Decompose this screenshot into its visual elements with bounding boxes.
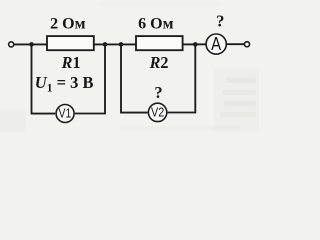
right terminal	[244, 42, 249, 47]
resistor R1	[47, 36, 94, 50]
svg-text:U1 = 3 В: U1 = 3 В	[35, 73, 94, 95]
svg-text:V1: V1	[58, 107, 71, 121]
svg-text:6 Ом: 6 Ом	[138, 15, 173, 32]
wire V1 loop left leg	[32, 44, 56, 113]
svg-text:R1: R1	[61, 53, 81, 72]
wire ammeter to right terminal	[227, 43, 244, 45]
wire left terminal to R1	[14, 43, 47, 45]
resistor R2	[136, 36, 183, 50]
wire R2 to ammeter	[183, 43, 206, 45]
paper background	[0, 0, 259, 132]
node junction J3	[119, 42, 124, 47]
svg-text:A: A	[211, 33, 222, 54]
svg-text:R2: R2	[149, 53, 169, 72]
svg-text:V2: V2	[151, 105, 164, 120]
wire V2 loop right leg	[168, 44, 196, 112]
left terminal	[9, 42, 14, 47]
wire V2 loop left leg	[121, 44, 148, 112]
node junction J4	[193, 42, 198, 47]
svg-text:2 Ом: 2 Ом	[50, 16, 85, 33]
voltmeter V2	[148, 103, 166, 121]
node junction J1	[29, 42, 34, 47]
svg-text:?: ?	[154, 83, 162, 102]
voltmeter V1	[56, 105, 74, 123]
svg-text:?: ?	[216, 11, 224, 30]
node junction J2	[103, 42, 108, 47]
ammeter A1	[206, 34, 226, 54]
wire V1 loop right leg	[75, 44, 105, 113]
wire R1 to R2	[94, 43, 136, 45]
